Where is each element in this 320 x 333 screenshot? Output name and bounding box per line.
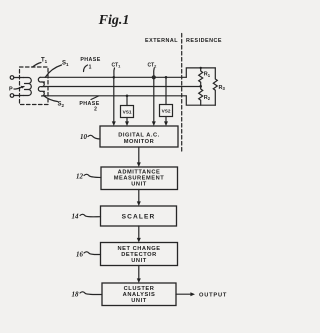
svg-text:SCALER: SCALER: [122, 213, 156, 220]
svg-text:10: 10: [80, 133, 88, 141]
svg-text:UNIT: UNIT: [131, 181, 146, 187]
svg-text:T1: T1: [41, 58, 48, 65]
svg-text:MONITOR: MONITOR: [124, 139, 155, 145]
svg-text:Fig.1: Fig.1: [98, 13, 130, 28]
svg-text:OUTPUT: OUTPUT: [199, 293, 227, 299]
svg-text:R1: R1: [204, 72, 211, 78]
svg-text:EXTERNAL: EXTERNAL: [145, 38, 178, 44]
svg-text:R3: R3: [219, 85, 226, 91]
svg-text:PHASE: PHASE: [80, 57, 100, 63]
svg-text:16: 16: [76, 251, 84, 259]
svg-text:UNIT: UNIT: [131, 298, 146, 304]
svg-text:14: 14: [72, 213, 80, 221]
svg-text:RESIDENCE: RESIDENCE: [186, 38, 222, 44]
svg-text:S1: S1: [62, 61, 69, 68]
svg-text:VS1: VS1: [123, 110, 132, 115]
svg-text:2: 2: [94, 106, 97, 112]
svg-text:VS2: VS2: [162, 109, 171, 114]
svg-text:CT2: CT2: [148, 63, 158, 69]
svg-text:P: P: [9, 87, 13, 93]
svg-text:R2: R2: [204, 95, 211, 101]
svg-text:18: 18: [72, 291, 80, 299]
svg-text:CT1: CT1: [112, 63, 122, 69]
svg-text:UNIT: UNIT: [131, 258, 146, 264]
svg-text:1: 1: [89, 65, 92, 71]
svg-text:12: 12: [76, 173, 84, 181]
svg-text:S2: S2: [58, 102, 65, 109]
svg-text:DIGITAL A.C.: DIGITAL A.C.: [118, 132, 160, 138]
